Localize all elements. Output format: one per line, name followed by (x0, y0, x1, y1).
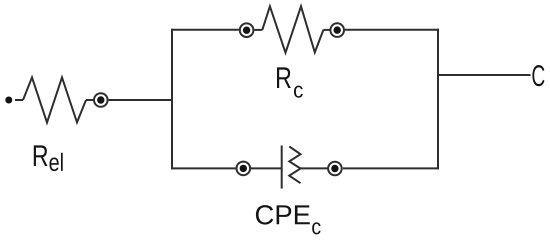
wire to R_c (254, 29, 262, 31)
terminal node bottom-left (237, 162, 251, 176)
input node dot (5, 97, 12, 104)
wire R_c to terminal (323, 29, 329, 31)
label R_c main: "R" (277, 67, 291, 88)
wire terminal to CPE plate (251, 167, 282, 169)
wire left vertical of parallel box (171, 29, 173, 170)
label R_el subscript: "el" (50, 153, 63, 171)
label C output: "C" (532, 65, 544, 86)
resistor R_c (262, 6, 323, 52)
wire top branch left (171, 29, 239, 31)
label CPE_c main: "CPE" (256, 205, 310, 224)
terminal node bottom-right (328, 162, 342, 176)
label R_el main: "R" (34, 145, 48, 166)
terminal node top-right (330, 23, 344, 37)
wire bottom branch left (171, 167, 236, 169)
wire top branch right (345, 29, 439, 31)
wire R_el to terminal (86, 99, 94, 101)
wire output (438, 74, 531, 76)
CPE left plate (281, 146, 283, 189)
terminal node top-left (240, 23, 254, 37)
wire terminal to left junction (109, 99, 173, 101)
label CPE_c subscript: "c" (312, 222, 320, 234)
wire input to R_el (15, 99, 23, 101)
wire right vertical of parallel box (437, 29, 439, 170)
label R_c subscript: "c" (294, 86, 303, 98)
resistor R_el (23, 77, 86, 122)
wire bottom branch right (343, 167, 439, 169)
CPE zigzag plate (289, 147, 300, 184)
wire CPE to terminal (301, 167, 328, 169)
terminal node after R_el (94, 93, 108, 107)
